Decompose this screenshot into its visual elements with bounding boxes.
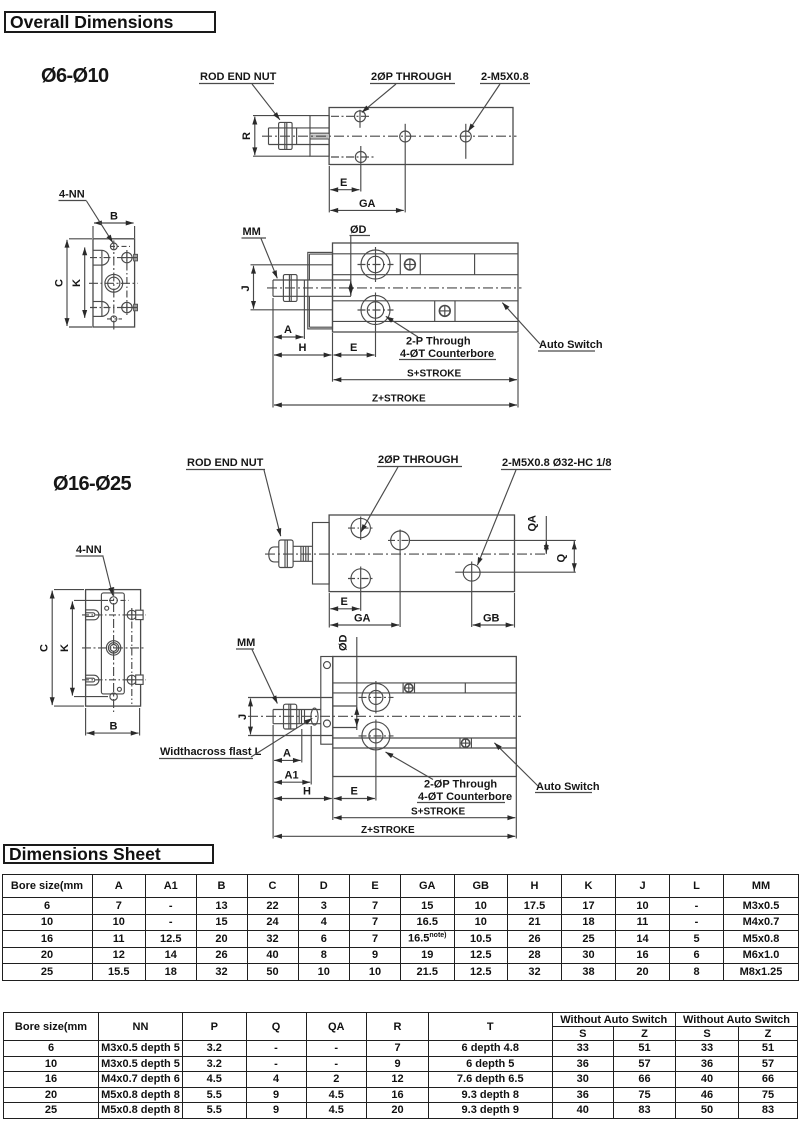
- svg-text:C: C: [54, 279, 66, 287]
- small hole lower end view 2: [117, 687, 121, 691]
- groove divider side view 2: [464, 683, 466, 693]
- hole M5 right top view 1: [460, 131, 471, 142]
- center line side view 2: [248, 715, 521, 717]
- svg-text:B: B: [110, 721, 118, 733]
- svg-text:ROD END NUT: ROD END NUT: [200, 71, 277, 83]
- S+STROKE dimension view 2: [334, 817, 516, 819]
- inner column end view 2: [101, 593, 124, 694]
- svg-text:E: E: [340, 177, 347, 189]
- hole M5 right top view 2: [463, 564, 480, 581]
- rod end nut side view 1: [283, 275, 297, 302]
- svg-text:GA: GA: [354, 613, 371, 625]
- upper slot end view 2: [86, 609, 94, 611]
- svg-text:E: E: [351, 786, 358, 798]
- A1 dimension view 2: [310, 726, 312, 785]
- lower slot end view 2: [86, 674, 94, 676]
- extension lines S Z view 2: [272, 725, 274, 839]
- head plate side view 2: [321, 657, 333, 745]
- svg-text:S+STROKE: S+STROKE: [411, 807, 466, 818]
- port hole upper end view 2: [127, 610, 136, 619]
- center line top view 1: [262, 135, 517, 137]
- GB dimension top view 2: [514, 593, 516, 628]
- J dimension view 2: [250, 699, 252, 735]
- B dimension end view 1: [92, 226, 94, 238]
- passage line QA top view 2: [410, 539, 576, 541]
- piston upper side view 2: [362, 683, 390, 711]
- QA dimension top view 2: [545, 516, 547, 554]
- svg-text:4-NN: 4-NN: [59, 189, 85, 201]
- NN hole bottom end view 2: [110, 693, 117, 700]
- svg-text:MM: MM: [237, 637, 255, 649]
- rod top view 1: [269, 127, 330, 129]
- svg-text:MM: MM: [243, 226, 261, 238]
- svg-text:H: H: [299, 342, 307, 354]
- A dimension view 2: [301, 729, 303, 763]
- small hole upper end view 2: [105, 606, 109, 610]
- B dimension end view 2: [85, 708, 87, 736]
- hole P upper top view 2: [351, 518, 370, 537]
- port hole lower end view 2: [127, 675, 136, 684]
- center boss end view 2: [106, 641, 120, 655]
- svg-text:GB: GB: [483, 613, 500, 625]
- hole P lower top view 2: [351, 569, 370, 588]
- Z+STROKE dimension view 1: [274, 404, 517, 406]
- upper slot end view 1: [93, 249, 102, 251]
- body rect top view 2: [329, 515, 514, 592]
- center lines end view 1: [113, 241, 115, 331]
- thread shading top view 1: [311, 134, 329, 138]
- svg-text:QA: QA: [527, 515, 539, 532]
- NN hole top end view 2: [110, 597, 117, 604]
- svg-text:2-P Through: 2-P Through: [406, 336, 471, 348]
- S+STROKE dimension view 1: [334, 379, 518, 381]
- piston lower side view 2: [362, 722, 390, 750]
- dimensions table 1: [2, 874, 800, 981]
- rod shank top view 2: [293, 545, 312, 547]
- body rect side view 2: [333, 657, 517, 777]
- piston lower side view 1: [361, 296, 390, 325]
- thread marks side view 2: [298, 710, 300, 724]
- svg-text:A1: A1: [285, 770, 299, 782]
- svg-text:Auto Switch: Auto Switch: [536, 781, 600, 793]
- port hole mid top view 2: [391, 531, 410, 550]
- E dimension view 2 side: [334, 798, 375, 800]
- svg-text:ØD: ØD: [350, 224, 367, 236]
- rod hole stubs side view 2: [333, 705, 357, 707]
- rod block side view 1: [308, 252, 333, 329]
- svg-text:K: K: [71, 279, 83, 287]
- port tabs end view 2: [136, 610, 143, 619]
- center line side view 1: [267, 287, 522, 289]
- K dimension end view 1: [84, 247, 86, 318]
- auto switch lower side view 2: [459, 738, 461, 748]
- GA dimension top view 1: [330, 209, 404, 211]
- svg-text:Z+STROKE: Z+STROKE: [372, 394, 426, 405]
- hole P upper top view 1: [355, 111, 366, 122]
- svg-text:Ø6-Ø10: Ø6-Ø10: [41, 65, 109, 87]
- auto switch lower side view 1: [434, 301, 436, 322]
- hole P lower top view 1: [355, 152, 366, 163]
- svg-text:GA: GA: [359, 198, 376, 210]
- slot lines top view 1: [310, 132, 329, 134]
- dimensions table 2: [3, 1012, 798, 1119]
- C dimension end view 2: [54, 589, 84, 591]
- piston upper side view 1: [361, 250, 390, 279]
- H dimension view 1: [274, 354, 332, 356]
- svg-text:A: A: [283, 748, 291, 760]
- NN hole top end view 1: [110, 243, 117, 250]
- hole center top view 1: [400, 131, 411, 142]
- svg-text:ØD: ØD: [338, 634, 350, 651]
- J extension lines: [251, 264, 333, 266]
- svg-text:4-NN: 4-NN: [76, 544, 102, 556]
- center line top view 2: [265, 553, 547, 555]
- inner column line end view 1: [101, 250, 103, 316]
- svg-text:Widthacross flast L: Widthacross flast L: [160, 746, 262, 758]
- auto switch upper side view 2: [402, 683, 404, 693]
- svg-text:ROD END NUT: ROD END NUT: [187, 457, 264, 469]
- piston rod side view 2: [273, 709, 321, 711]
- port tabs end view 1: [134, 254, 138, 261]
- svg-text:E: E: [350, 342, 357, 354]
- body rect side view 1: [333, 243, 519, 332]
- R extension lines: [253, 115, 310, 117]
- auto switch upper side view 1: [399, 254, 401, 275]
- svg-text:K: K: [59, 644, 71, 652]
- svg-text:E: E: [341, 596, 348, 608]
- svg-text:Auto Switch: Auto Switch: [539, 339, 603, 351]
- NN hole bottom end view 1: [111, 316, 117, 322]
- svg-text:A: A: [284, 324, 292, 336]
- plate rect end view 1: [93, 239, 135, 327]
- header box: Overall Dimensions: [4, 11, 216, 33]
- GA dimension top view 2: [330, 624, 399, 626]
- svg-text:H: H: [303, 786, 311, 798]
- svg-text:C: C: [39, 644, 51, 652]
- K dimension end view 2: [74, 599, 108, 601]
- groove lines side view 2: [333, 682, 517, 684]
- J dimension: [253, 266, 255, 309]
- wrench flats side view 2: [311, 708, 318, 725]
- svg-text:2-M5X0.8: 2-M5X0.8: [481, 71, 529, 83]
- J extension lines view 2: [248, 697, 333, 699]
- svg-text:Q: Q: [556, 554, 568, 563]
- port hole lower end view 1: [122, 302, 132, 312]
- rod block top view 2: [313, 523, 330, 585]
- piston rod side view 1: [273, 279, 351, 281]
- E dimension top view 1: [328, 166, 330, 212]
- lower slot end view 1: [93, 301, 102, 303]
- body rect top view 1: [329, 108, 513, 165]
- rod block top view 1: [310, 116, 329, 157]
- Z+STROKE dimension view 2: [274, 835, 515, 837]
- svg-text:R: R: [241, 132, 253, 140]
- svg-text:J: J: [240, 285, 252, 291]
- R dimension: [254, 117, 256, 156]
- C dimension end view 1: [69, 238, 92, 240]
- groove divider side view 1: [474, 254, 476, 275]
- rod end nut side view 2: [284, 704, 297, 729]
- center boss end view 1: [105, 274, 123, 292]
- thread marks top view 2: [300, 546, 302, 561]
- svg-text:2-M5X0.8 Ø32-HC 1/8: 2-M5X0.8 Ø32-HC 1/8: [502, 457, 611, 469]
- svg-text:4-ØT Counterbore: 4-ØT Counterbore: [418, 791, 512, 803]
- svg-text:4-ØT Counterbore: 4-ØT Counterbore: [400, 348, 494, 360]
- passage line Q top view 2: [455, 571, 576, 573]
- svg-text:2-ØP Through: 2-ØP Through: [424, 779, 497, 791]
- E dimension top view 2: [328, 593, 330, 628]
- plate rect end view 2: [86, 590, 141, 707]
- port hole upper end view 1: [122, 252, 132, 262]
- rod tip top view 2: [269, 547, 279, 562]
- svg-text:S+STROKE: S+STROKE: [407, 369, 462, 380]
- extension lines S Z view 1: [272, 298, 274, 408]
- rod end nut top view 2: [279, 540, 293, 568]
- E dimension view 1 side: [334, 354, 375, 356]
- rod end nut top view 1: [279, 122, 293, 149]
- header box: Dimensions Sheet: [3, 844, 214, 864]
- center lines end view 2: [113, 587, 115, 712]
- svg-text:Z+STROKE: Z+STROKE: [361, 825, 415, 836]
- H dimension view 2: [274, 798, 332, 800]
- svg-text:2ØP THROUGH: 2ØP THROUGH: [378, 454, 459, 466]
- plate screw holes side view 2: [324, 662, 331, 669]
- Q dimension top view 2: [573, 540, 575, 572]
- svg-text:Ø16-Ø25: Ø16-Ø25: [53, 473, 132, 495]
- svg-text:2ØP THROUGH: 2ØP THROUGH: [371, 71, 452, 83]
- svg-text:B: B: [110, 211, 118, 223]
- groove lines side view 1: [333, 253, 519, 255]
- svg-text:J: J: [237, 714, 249, 720]
- A dimension view 1: [303, 280, 305, 339]
